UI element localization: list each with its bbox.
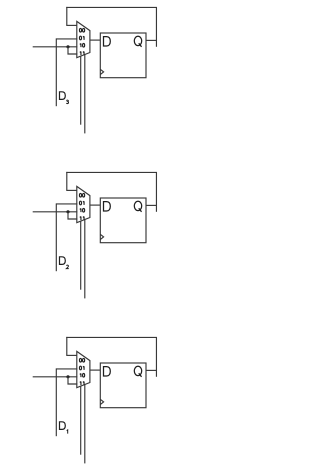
wire: serial input horizontal to mux input 10 xyxy=(33,211,78,213)
mux M2 input label 01 xyxy=(79,201,84,205)
mux M3 4-to-1 multiplexer body xyxy=(77,351,90,387)
mux M1 input label 01 xyxy=(79,36,84,40)
wire: select line S0 vertical below mux xyxy=(84,220,86,299)
wire: mux output to flip-flop D input xyxy=(90,39,100,41)
stage group: stage 2 (D2) xyxy=(33,172,157,299)
wire: mux output to flip-flop D input xyxy=(90,369,100,371)
wire: serial input horizontal to mux input 10 xyxy=(33,46,78,48)
wire: feedback right vertical xyxy=(155,7,157,46)
node D2: input label subscript 2 xyxy=(66,265,68,268)
node D1: input label subscript 1 xyxy=(67,430,68,434)
flip-flop U3 clock input triangle xyxy=(100,399,103,404)
flip-flop U3 pin label D xyxy=(104,367,111,376)
flip-flop U2 pin label D xyxy=(104,202,111,211)
node D2: input label letter D xyxy=(60,257,66,265)
wire: select line S1 vertical below mux xyxy=(80,386,82,455)
wire: select line S1 vertical below mux xyxy=(80,221,82,290)
wire: D3 horizontal to mux input 01 xyxy=(56,38,77,40)
wire: mux input 00 stub xyxy=(66,24,77,26)
wire: serial input horizontal to mux input 10 xyxy=(33,376,78,378)
flip-flop U1 pin label D xyxy=(104,37,111,46)
mux M2 input label 00 xyxy=(79,193,84,197)
flip-flop U1 body xyxy=(100,33,146,78)
stage group: stage 3 (D1) xyxy=(33,337,157,464)
wire: D1 horizontal to mux input 01 xyxy=(56,368,77,370)
wire: D1 vertical input stub xyxy=(55,368,57,436)
wire: select line S0 vertical below mux xyxy=(84,385,86,464)
flip-flop U1 clock input triangle xyxy=(100,69,103,74)
mux M2 input label 10 xyxy=(80,209,85,213)
wire: Q1 output stub from flip-flop to feedback vertical xyxy=(146,369,156,371)
wire: branch from junction down to mux input 11 xyxy=(68,212,77,219)
mux M3 input label 00 xyxy=(79,358,84,362)
mux M1 input label 11 xyxy=(80,52,84,56)
flip-flop U2 pin label Q xyxy=(134,201,141,212)
wire: feedback right vertical xyxy=(155,337,157,376)
wire: feedback left vertical down to mux xyxy=(66,337,68,356)
wire: Q3 output stub from flip-flop to feedback vertical xyxy=(146,39,156,41)
junction dot on input 10 wire xyxy=(66,45,69,48)
wire: D3 vertical input stub xyxy=(55,38,57,106)
junction dot on input 10 wire xyxy=(66,210,69,213)
flip-flop U2 clock input triangle xyxy=(100,234,103,239)
junction dot on input 10 wire xyxy=(66,375,69,378)
stage group: stage 1 (D3) xyxy=(33,7,157,133)
wire: mux input 00 stub xyxy=(66,354,77,356)
mux M3 input label 01 xyxy=(79,366,84,370)
wire: feedback top horizontal xyxy=(66,6,157,8)
wire: feedback right vertical xyxy=(155,172,157,211)
wire: feedback top horizontal xyxy=(66,171,157,173)
wire: branch from junction down to mux input 11 xyxy=(68,377,77,384)
wire: select line S1 vertical below mux xyxy=(80,56,82,125)
wire: Q2 output stub from flip-flop to feedback vertical xyxy=(146,204,156,206)
mux M2 4-to-1 multiplexer body xyxy=(77,186,90,222)
mux M3 input label 11 xyxy=(80,382,84,386)
flip-flop U2 body xyxy=(100,198,146,243)
wire: D2 vertical input stub xyxy=(55,203,57,271)
node D3: input label subscript 3 xyxy=(66,100,68,103)
mux M2 input label 11 xyxy=(80,217,84,221)
wire: feedback left vertical down to mux xyxy=(66,172,68,191)
flip-flop U1 pin label Q xyxy=(134,36,141,47)
wire: feedback left vertical down to mux xyxy=(66,7,68,26)
node D3: input label letter D xyxy=(60,92,66,100)
wire: mux output to flip-flop D input xyxy=(90,204,100,206)
flip-flop U3 pin label Q xyxy=(134,366,141,377)
wire: D2 horizontal to mux input 01 xyxy=(56,203,77,205)
mux M1 input label 10 xyxy=(80,44,85,48)
mux M1 4-to-1 multiplexer body xyxy=(77,21,90,57)
node D1: input label letter D xyxy=(60,422,66,430)
mux M1 input label 00 xyxy=(79,28,84,32)
mux M3 input label 10 xyxy=(80,374,85,378)
wire: select line S0 vertical below mux xyxy=(84,55,86,134)
flip-flop U3 body xyxy=(100,363,146,408)
wire: branch from junction down to mux input 11 xyxy=(68,47,77,54)
wire: feedback top horizontal xyxy=(66,336,157,338)
wire: mux input 00 stub xyxy=(66,189,77,191)
